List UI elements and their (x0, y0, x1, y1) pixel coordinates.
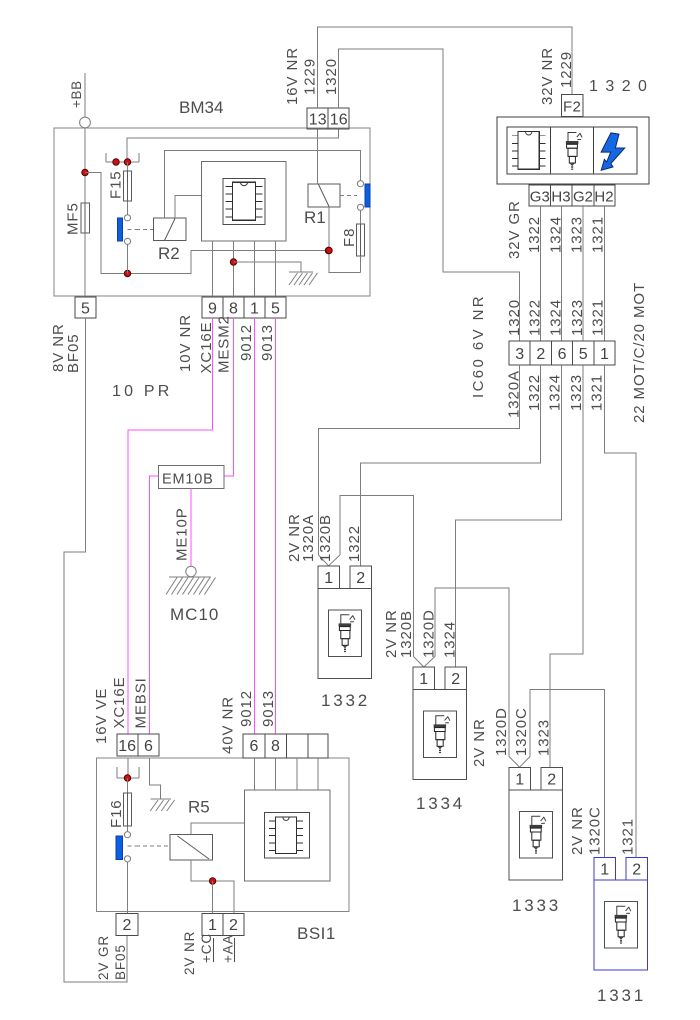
svg-text:+AA: +AA (221, 934, 236, 963)
svg-text:1: 1 (515, 772, 524, 789)
connector pin 2 bottom left BSI (116, 914, 138, 936)
wire 1320B vee at 1332 (329, 555, 340, 566)
wire XC16E (pink) BM34 pin9 to BSI pin16 (128, 318, 213, 734)
svg-text:G2: G2 (573, 189, 593, 206)
injector icon in ECU (566, 133, 582, 170)
svg-text:1320B: 1320B (398, 610, 415, 658)
wire R2 coil top to R1 contact (165, 151, 361, 219)
interconnector IC60 strip 3 2 6 5 1 (509, 341, 615, 365)
svg-text:40V NR: 40V NR (220, 696, 237, 754)
svg-text:1323: 1323 (536, 719, 553, 756)
svg-text:BF05: BF05 (65, 334, 82, 373)
svg-text:1332: 1332 (321, 691, 370, 710)
wire 9012 (pink) BM34 pin1 to BSI pin6 (254, 318, 256, 734)
wire pin16 to F15 terminals (127, 129, 339, 162)
wire R5 to IC block BSI (191, 823, 244, 835)
wire to IC 3 (296, 758, 298, 790)
wire 1320C vee at 1333 (520, 757, 530, 768)
svg-text:32V GR: 32V GR (506, 200, 523, 259)
junction terminal right (124, 159, 130, 165)
svg-text:9013: 9013 (259, 324, 276, 361)
wire to BSI pin1 (212, 881, 214, 914)
svg-text:1: 1 (600, 862, 609, 879)
svg-text:MC10: MC10 (170, 605, 219, 624)
ground inside BSI (150, 758, 161, 799)
wire R1 bottom to F8 bottom (329, 207, 361, 273)
svg-text:9012: 9012 (238, 690, 255, 727)
svg-text:16V NR: 16V NR (284, 47, 301, 105)
svg-text:10 PR: 10 PR (112, 383, 172, 400)
svg-text:EM10B: EM10B (162, 472, 214, 488)
svg-text:10V NR: 10V NR (177, 314, 194, 372)
fuse F2 (562, 95, 584, 117)
svg-text:1320C: 1320C (587, 806, 604, 855)
svg-text:1321: 1321 (620, 818, 637, 855)
dashed link R1 (340, 195, 357, 197)
injector 1331 (594, 858, 615, 881)
svg-text:1320: 1320 (506, 299, 523, 336)
connector 16|6 on BSI (117, 734, 159, 756)
wire +BB feed down to pin 5 (84, 128, 86, 297)
connector pin 5 (8V BF05) (75, 297, 96, 318)
svg-text:1323: 1323 (569, 299, 586, 336)
fuse F15 (127, 162, 129, 215)
junction at BSI pin16 (124, 775, 130, 781)
terminal pair above F15 (106, 161, 139, 163)
dashed link R2 (128, 229, 137, 231)
connector G3 H3 G2 H2 (529, 185, 615, 206)
svg-text:3: 3 (515, 346, 524, 363)
svg-text:2: 2 (356, 570, 365, 587)
switch contact of R2 (circles + blue actuator) (124, 215, 130, 221)
relay R5 (170, 835, 213, 861)
wire 1320C 1333 pin1 to 1331 pin1 (530, 690, 605, 858)
svg-text:1320C: 1320C (513, 707, 530, 756)
wire R2 to IC block (175, 196, 201, 219)
svg-text:R2: R2 (158, 244, 180, 263)
wire to IC 4 (317, 758, 319, 790)
svg-text:1320D: 1320D (493, 707, 510, 756)
svg-text:1: 1 (600, 346, 609, 363)
svg-text:1321: 1321 (589, 374, 606, 411)
fuse F16 (124, 793, 132, 826)
wire branch MF5 junction to R1/F8 net (85, 173, 329, 274)
wire 1321 strip pin1 to 1331 pin2 (604, 365, 636, 858)
connector 9 8 1 5 on BM34 (202, 297, 286, 318)
svg-text:1324: 1324 (547, 374, 564, 411)
svg-text:XC16E: XC16E (111, 676, 128, 728)
svg-text:MESM2: MESM2 (216, 315, 233, 373)
IC output wires to pins 9 8 1 5 (212, 241, 214, 297)
wire 1322 G3 to IC60 pin2 (540, 206, 542, 341)
wire pin13 to R1 (317, 129, 319, 184)
wire 1229 BM34 pin13 to F2 (318, 27, 573, 108)
fuse MF5 (81, 203, 90, 233)
injector 1333 (509, 768, 530, 791)
svg-text:1320A: 1320A (300, 514, 317, 562)
svg-text:2: 2 (123, 917, 132, 934)
svg-text:1333: 1333 (512, 896, 561, 915)
svg-text:2V NR: 2V NR (471, 718, 488, 767)
injector 1334 (413, 667, 434, 690)
svg-text:22 MOT/C/20 MOT: 22 MOT/C/20 MOT (631, 282, 648, 423)
svg-text:F8: F8 (341, 228, 358, 247)
svg-text:2: 2 (547, 772, 556, 789)
svg-text:2V NR: 2V NR (569, 806, 586, 855)
svg-text:9013: 9013 (260, 690, 277, 727)
svg-text:MEBSI: MEBSI (133, 677, 150, 728)
svg-text:F2: F2 (563, 99, 581, 116)
wire contact to bottom rail (127, 244, 129, 273)
IC block in BSI (244, 790, 330, 881)
svg-text:5: 5 (579, 346, 588, 363)
IC block U1 in BM34 (202, 162, 287, 242)
junction R5 bottom (209, 878, 215, 884)
underline +AA (234, 938, 236, 962)
svg-text:16: 16 (330, 112, 348, 129)
relay R1 (308, 184, 340, 207)
wire to F16 (127, 778, 129, 832)
junction F15 branch / bottom rail (124, 270, 130, 276)
lightning bolt icon (601, 133, 625, 170)
svg-text:H2: H2 (594, 189, 613, 206)
fusebox BM34 outline (54, 128, 370, 296)
svg-text:1229: 1229 (558, 51, 575, 88)
connector 1|2 bottom BSI (202, 914, 244, 936)
junction IC ground wire (230, 259, 236, 265)
svg-text:1321: 1321 (590, 299, 607, 336)
wire MEBSI (pink) EM10B to BSI pin6(16|6) (150, 476, 159, 734)
svg-text:2: 2 (536, 346, 545, 363)
wire 1320B vee at 1334 (414, 657, 424, 668)
svg-text:32V NR: 32V NR (539, 47, 556, 105)
svg-text:6: 6 (250, 738, 259, 755)
wire BF05 to BSI pin2 (64, 318, 127, 982)
junction on R1-F8 wire (325, 247, 331, 253)
svg-text:8: 8 (229, 301, 238, 318)
junction terminal left (113, 159, 119, 165)
wire 1320D vee at 1334 (424, 657, 435, 668)
wire 1320A vee (319, 555, 329, 566)
svg-text:1334: 1334 (416, 794, 465, 813)
svg-text:1322: 1322 (346, 525, 363, 562)
svg-text:2: 2 (229, 917, 238, 934)
svg-text:1: 1 (208, 917, 217, 934)
chip icon in ECU (512, 132, 545, 170)
svg-text:2V NR: 2V NR (182, 931, 197, 975)
ground in BM34 (289, 271, 313, 273)
svg-text:F15: F15 (108, 170, 125, 199)
svg-text:1: 1 (250, 301, 259, 318)
svg-text:IC60 6V NR: IC60 6V NR (470, 294, 487, 398)
svg-text:1331: 1331 (597, 986, 646, 1005)
dashed link R5 (128, 845, 137, 847)
svg-text:1322: 1322 (527, 299, 544, 336)
node +BB supply (84, 73, 86, 117)
svg-text:2: 2 (451, 671, 460, 688)
ground MC10 (186, 566, 196, 576)
BSI1 box (97, 758, 350, 912)
svg-text:9012: 9012 (238, 324, 255, 361)
relay R2 (154, 218, 187, 241)
svg-text:H3: H3 (551, 189, 570, 206)
terminal pair + F16 chain inside BSI (127, 758, 129, 778)
wire BSI pin8 to IC (275, 758, 277, 790)
svg-text:1324: 1324 (548, 299, 565, 336)
svg-text:MF5: MF5 (65, 202, 82, 235)
svg-text:5: 5 (81, 301, 90, 318)
svg-text:6: 6 (558, 346, 567, 363)
svg-text:1 3 2 0: 1 3 2 0 (589, 78, 648, 95)
svg-text:G3: G3 (530, 189, 550, 206)
wire ME10P (pink) EM10B to ground MC10 (190, 489, 192, 567)
wire 1320A strip pin3 to 1332 pin1 (319, 365, 520, 555)
svg-text:BSI1: BSI1 (297, 924, 336, 943)
svg-text:1320: 1320 (323, 58, 340, 95)
injector 1332 (318, 566, 339, 589)
svg-text:1320D: 1320D (421, 609, 438, 658)
wire 9013 (pink) BM34 pin5 to BSI pin8 (275, 318, 277, 734)
splice EM10B (159, 466, 225, 489)
svg-text:ME10P: ME10P (174, 507, 191, 561)
svg-text:16V VE: 16V VE (93, 688, 110, 744)
wire MESM2 (pink) BM34 pin8 to EM10B (224, 318, 234, 476)
svg-text:5: 5 (271, 301, 280, 318)
svg-text:R5: R5 (188, 798, 210, 817)
svg-text:1324: 1324 (442, 621, 459, 658)
svg-text:1229: 1229 (302, 58, 319, 95)
svg-text:F16: F16 (108, 799, 125, 828)
wire 1323 strip pin5 to 1333 pin2 (550, 365, 583, 768)
svg-text:2V GR: 2V GR (96, 935, 111, 980)
svg-text:BF05: BF05 (113, 944, 128, 980)
svg-text:13: 13 (309, 112, 327, 129)
underline +CC (213, 938, 215, 962)
svg-text:1323: 1323 (568, 374, 585, 411)
svg-text:9: 9 (208, 301, 217, 318)
svg-text:16: 16 (118, 738, 136, 755)
wire 1320D vee at 1333 (509, 757, 520, 768)
wire 1323 G2 to IC60 pin5 (582, 206, 584, 341)
svg-text:+BB: +BB (69, 80, 84, 108)
wire 1320D 1334 pin1 to 1333 pin1 (435, 588, 509, 757)
wire 1321 H2 to IC60 pin1 (603, 206, 605, 341)
ECU 1320 box (497, 117, 649, 184)
svg-text:BM34: BM34 (179, 98, 223, 117)
svg-text:R1: R1 (304, 208, 326, 227)
wire 1320 BM34 pin16 to IC60 pin3 (339, 49, 520, 341)
svg-text:1: 1 (419, 671, 428, 688)
switch contact of R5 (circles + blue actuator) (124, 832, 130, 838)
svg-text:2: 2 (632, 862, 641, 879)
wire 1324 strip pin6 to 1334 pin2 (456, 365, 562, 667)
wire contact to BSI pin2 (127, 862, 129, 914)
wire 1324 H3 to IC60 pin6 (561, 206, 563, 341)
fuse F8 (360, 210, 362, 224)
connector 13|16 on BM34 (307, 108, 349, 129)
connector 6|8 strip on BSI (243, 734, 328, 758)
wire 1320B 1332 pin1 to 1334 pin1 (340, 496, 414, 657)
wire R5 bottom to pins 1/2 (191, 860, 234, 914)
svg-text:8: 8 (271, 738, 280, 755)
junction on +BB wire (82, 169, 88, 175)
svg-text:6: 6 (144, 738, 153, 755)
svg-text:+CC: +CC (199, 933, 214, 963)
svg-text:1320B: 1320B (317, 514, 334, 562)
wire 1322 strip pin2 to 1332 pin2 (361, 365, 541, 566)
wire BSI pin6 to IC (254, 758, 256, 790)
svg-text:1: 1 (324, 570, 333, 587)
wire to internal ground (234, 262, 302, 272)
